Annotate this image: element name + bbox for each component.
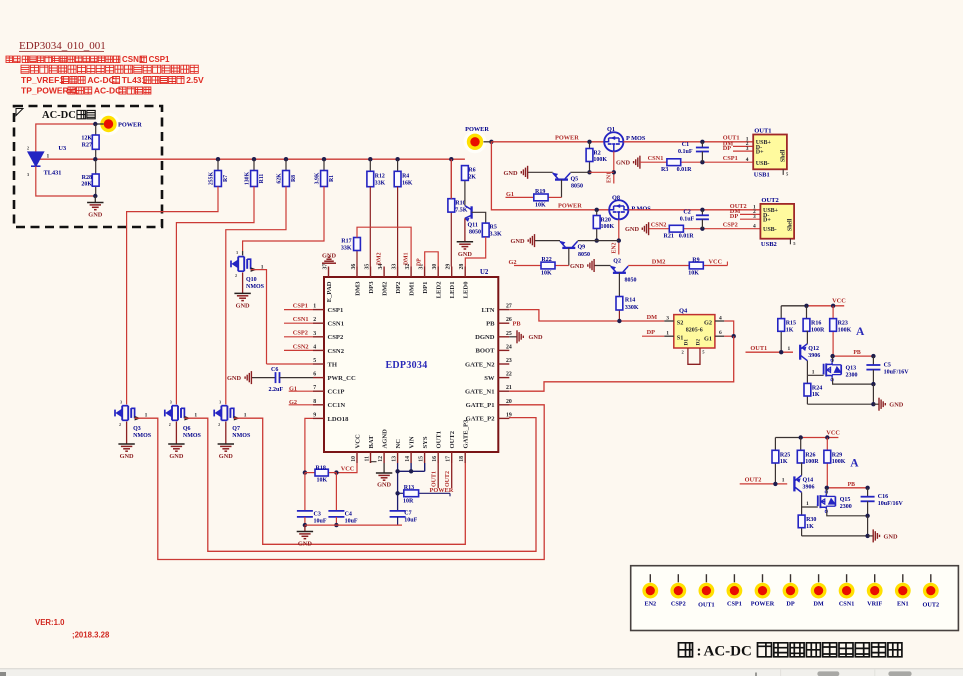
svg-text:18: 18	[459, 456, 465, 462]
svg-text:CSN1: CSN1	[648, 155, 664, 162]
wire gate to Q15	[802, 506, 818, 508]
svg-text:7: 7	[313, 385, 316, 391]
wire cap ground bus	[305, 524, 402, 526]
resistor R30 1K	[801, 507, 803, 515]
svg-text:1: 1	[47, 154, 50, 160]
svg-text:100K: 100K	[832, 459, 846, 465]
pin 24 BOOT	[498, 349, 509, 351]
wire R2 bottom to EN1	[587, 170, 591, 174]
svg-text:R2: R2	[593, 150, 600, 156]
test point POWER (front-end)	[97, 113, 120, 136]
svg-text:8050: 8050	[625, 277, 637, 283]
wire R8 to NMOS gate column x=225.8	[226, 187, 286, 405]
svg-text:5: 5	[313, 358, 316, 364]
svg-text:NMOS: NMOS	[232, 433, 251, 439]
wire Q6 pin1 down-right to GATE_P2 net	[184, 416, 190, 421]
capacitor C1 0.1uF	[700, 140, 704, 144]
wire Q8 drain to USB2	[628, 209, 760, 211]
capacitor C3 10uF	[304, 473, 306, 510]
pin 13 NC	[397, 452, 399, 463]
svg-text:DM1: DM1	[403, 252, 409, 265]
svg-text:GND: GND	[511, 238, 525, 245]
wire R1 to Q10 drain	[243, 187, 324, 252]
wire Q9 base to R22	[568, 248, 570, 266]
resistor R7 255K	[216, 157, 220, 161]
svg-text:GATE_N2: GATE_N2	[465, 361, 495, 368]
svg-text:VCC: VCC	[709, 258, 723, 265]
svg-text:E_PAD: E_PAD	[326, 281, 333, 302]
svg-text:A: A	[856, 326, 865, 338]
svg-text:2K: 2K	[468, 174, 476, 180]
svg-text:2.5V: 2.5V	[186, 75, 204, 85]
pin 6 PWR_CC	[313, 377, 324, 379]
svg-text:USB2: USB2	[761, 241, 777, 248]
svg-text:Q15: Q15	[840, 497, 851, 503]
svg-text:PB: PB	[848, 482, 856, 488]
resistor R22 10K	[514, 265, 541, 267]
svg-text:POWER: POWER	[558, 203, 582, 210]
svg-text:4: 4	[313, 344, 316, 350]
svg-text:C7: C7	[404, 511, 411, 517]
test point VRIF	[874, 574, 876, 582]
wire Q2 base to R14	[618, 273, 620, 297]
svg-text:11: 11	[365, 456, 371, 462]
svg-text:Q4: Q4	[679, 308, 688, 315]
svg-text:GND: GND	[298, 541, 312, 548]
svg-text:R20: R20	[601, 217, 611, 223]
wire LTN pin27 to Q4	[509, 310, 664, 321]
svg-text:3: 3	[753, 214, 756, 220]
svg-text:DM2: DM2	[652, 258, 666, 265]
capacitor C2 0.1uF	[700, 208, 704, 212]
svg-text:10K: 10K	[535, 203, 546, 209]
svg-text:Q12: Q12	[808, 346, 819, 352]
pin 11 BAT	[370, 452, 372, 463]
pin 34 DM2	[383, 267, 385, 278]
svg-text:GND: GND	[169, 453, 183, 460]
net label OUT2 pin17 stub	[451, 463, 453, 488]
capacitor C16 10uF/16V	[867, 488, 869, 497]
svg-text:VRIF: VRIF	[867, 601, 882, 608]
svg-text:10uF: 10uF	[314, 519, 327, 525]
svg-text:EN1: EN1	[607, 172, 613, 183]
svg-text:R6: R6	[468, 167, 475, 173]
svg-text:255K: 255K	[209, 171, 215, 185]
svg-text:P MOS: P MOS	[626, 135, 646, 142]
svg-text:Q13: Q13	[846, 366, 857, 372]
svg-text:3: 3	[746, 146, 749, 152]
svg-text:R13: R13	[404, 485, 414, 491]
svg-text:PB: PB	[486, 321, 495, 328]
svg-text:0.1uF: 0.1uF	[678, 149, 693, 155]
pin 17 OUT2	[451, 452, 453, 463]
pin 27 LTN	[498, 309, 509, 311]
wire R30 bottom to ground	[802, 535, 868, 537]
svg-text:Q1: Q1	[607, 126, 615, 133]
connector box AC-DC interface	[631, 566, 959, 631]
svg-text:CSP1: CSP1	[149, 55, 170, 64]
pin 3 CSP2	[313, 336, 324, 338]
wire Q3 source to ground	[126, 422, 128, 445]
svg-text:C5: C5	[884, 362, 891, 368]
wire Q10 source to ground	[242, 272, 244, 293]
svg-text:CSP1: CSP1	[293, 303, 308, 310]
svg-text:1: 1	[313, 304, 316, 310]
ground GND sideways at Q9 emitter	[535, 240, 561, 242]
wire TH from Q10	[267, 363, 314, 365]
ground GND above pin 37	[322, 262, 336, 264]
svg-text:9: 9	[313, 412, 316, 418]
svg-text:10K: 10K	[688, 271, 699, 277]
pin 2 CSN1	[313, 322, 324, 324]
wire R24 bottom to ground	[807, 403, 873, 405]
resistor R20 100K	[595, 208, 599, 212]
resistor R12 33K	[368, 157, 372, 161]
svg-text:GATE_N1: GATE_N1	[465, 389, 495, 396]
svg-text:100R: 100R	[811, 327, 825, 333]
svg-text:6: 6	[719, 330, 722, 336]
svg-text:100K: 100K	[593, 157, 607, 163]
resistor R13 10R to POWER	[395, 491, 399, 495]
svg-text:R23: R23	[838, 321, 848, 327]
svg-text:R3: R3	[661, 167, 668, 173]
svg-text:VCC: VCC	[354, 434, 361, 449]
svg-text:GND: GND	[219, 453, 233, 460]
svg-text:VCC: VCC	[341, 465, 355, 472]
wire Q3 pin1 down-right to GATE_P1 net	[135, 416, 141, 421]
TL431 U3	[28, 152, 44, 166]
resistor R19 10K	[506, 196, 534, 198]
svg-text:NMOS: NMOS	[246, 284, 265, 290]
wire Q15 drain to PB	[826, 488, 828, 494]
ground GND sideways at Q5 emitter	[528, 171, 553, 173]
svg-text:LTN: LTN	[482, 307, 495, 314]
wire TL431 anode loop	[36, 166, 96, 196]
transistor Q1 P MOS	[604, 132, 623, 151]
pin 16 OUT1	[437, 452, 439, 463]
svg-text:17: 17	[446, 456, 452, 462]
svg-text:OUT1: OUT1	[754, 128, 771, 135]
svg-text:3906: 3906	[803, 485, 815, 491]
svg-text:R19: R19	[535, 189, 545, 195]
resistor R24 1K	[806, 375, 808, 383]
svg-text:P MOS: P MOS	[631, 205, 651, 212]
resistor R23 100K	[832, 306, 834, 319]
test point DM	[818, 574, 820, 582]
wire POWER down to Q8 row	[491, 142, 609, 210]
svg-text:DM2: DM2	[377, 252, 383, 265]
net PB wire	[827, 487, 867, 489]
svg-text:R30: R30	[806, 517, 816, 523]
wire Q14 collector to R26	[800, 463, 803, 475]
svg-text:Q11: Q11	[468, 223, 478, 229]
test point POWER (main)	[464, 130, 487, 153]
svg-text:3: 3	[120, 400, 122, 404]
svg-text:1K: 1K	[780, 459, 788, 465]
transistor Q15 2300	[817, 495, 818, 505]
svg-text:12: 12	[378, 456, 384, 462]
svg-text:10K: 10K	[541, 271, 552, 277]
svg-text:19: 19	[506, 412, 512, 418]
svg-text:0.01R: 0.01R	[677, 167, 693, 173]
transistor Q6 NMOS	[165, 409, 172, 418]
svg-text:S1: S1	[677, 335, 684, 342]
svg-text:VER:1.0: VER:1.0	[35, 618, 65, 627]
wire OUT1 input	[746, 351, 794, 353]
resistor R27 12K	[95, 124, 97, 135]
capacitor C6 2.2uF on PWR_CC	[251, 377, 275, 379]
svg-text:OUT1: OUT1	[431, 471, 437, 487]
svg-text:1: 1	[244, 412, 247, 418]
pin 15 SYS	[424, 452, 426, 463]
ground GND (R25 block)	[872, 529, 874, 542]
pin 1 CSP1	[313, 309, 324, 311]
svg-text:2: 2	[169, 423, 171, 427]
svg-text:DP: DP	[417, 258, 423, 266]
svg-text:3.9K: 3.9K	[315, 172, 321, 184]
pin 22 SW	[498, 377, 509, 379]
test point CSP1	[733, 574, 735, 582]
transistor Q13 2300	[823, 364, 824, 374]
wire R5 to pin 28 LED0	[465, 237, 485, 267]
svg-text:EN1: EN1	[897, 601, 909, 608]
svg-text:Q6: Q6	[183, 426, 191, 432]
svg-text:3: 3	[27, 172, 29, 177]
svg-text:TL431: TL431	[44, 170, 62, 177]
svg-text:DGND: DGND	[475, 334, 495, 341]
svg-text:DP: DP	[730, 213, 739, 220]
svg-text:VCC: VCC	[832, 298, 846, 305]
connector USB2 OUT2	[760, 204, 794, 239]
ground GND below Q6	[168, 443, 184, 445]
svg-text:R9: R9	[692, 258, 699, 264]
test point CSN1	[846, 574, 848, 582]
net EN2: Q8 gate stub	[618, 219, 620, 254]
svg-text:1: 1	[194, 412, 197, 418]
svg-text:R18: R18	[316, 465, 326, 471]
svg-text::: :	[697, 644, 702, 660]
svg-text:R5: R5	[490, 224, 497, 230]
svg-text:CSN1: CSN1	[328, 321, 345, 328]
svg-text:AC-DC: AC-DC	[87, 75, 114, 85]
wire VCC pin10 to R18	[336, 463, 357, 473]
svg-text:OUT1: OUT1	[436, 431, 443, 449]
svg-text:7.5K: 7.5K	[455, 207, 468, 213]
svg-text:Shell: Shell	[788, 218, 794, 231]
wire R12 to pin 35 DP3	[369, 187, 371, 267]
svg-text:LED0: LED0	[463, 281, 470, 299]
test point OUT2	[930, 574, 932, 582]
ground GND sideways at C6	[250, 371, 252, 384]
svg-text:Q8: Q8	[612, 195, 620, 202]
svg-text:U2: U2	[480, 269, 489, 276]
svg-text:NC: NC	[395, 439, 402, 449]
svg-text:C16: C16	[878, 494, 888, 500]
svg-text:Q10: Q10	[246, 277, 257, 283]
svg-text:2: 2	[235, 274, 237, 278]
svg-text:3.3K: 3.3K	[490, 231, 503, 237]
resistor R10 7.5K on LED1 pull-up	[450, 159, 452, 199]
svg-text:8205-6: 8205-6	[686, 328, 703, 334]
svg-text:R8: R8	[291, 175, 297, 182]
svg-text:GATE_P3: GATE_P3	[463, 419, 470, 449]
svg-text:C6: C6	[271, 367, 278, 373]
junction POWER	[489, 140, 493, 144]
wire Q12 emitter node	[806, 361, 808, 376]
svg-text:10: 10	[351, 456, 357, 462]
svg-text:1K: 1K	[806, 524, 814, 530]
svg-text:C3: C3	[314, 512, 321, 518]
net EN1: Q1 gate stub	[613, 151, 615, 183]
wire Q5 collector to R2 bottom	[570, 171, 589, 173]
transistor Q7 NMOS	[215, 409, 222, 418]
svg-text:AC-DC: AC-DC	[94, 86, 121, 96]
transistor Q8 P MOS	[609, 200, 628, 219]
svg-text:NMOS: NMOS	[183, 433, 202, 439]
svg-text:GND: GND	[88, 212, 102, 219]
svg-text:Q7: Q7	[232, 426, 240, 432]
resistor R29 100K	[826, 438, 828, 451]
resistor R8 62K	[284, 157, 288, 161]
main rail from TL431	[39, 158, 465, 160]
connector USB1 OUT1	[753, 135, 787, 170]
svg-text:CSP2: CSP2	[671, 601, 686, 608]
svg-text:Q2: Q2	[613, 259, 621, 265]
svg-text:GND: GND	[120, 453, 134, 460]
test point EN2	[649, 574, 651, 582]
junction at R27 top	[93, 122, 97, 126]
resistor R21 0.01R	[649, 228, 670, 230]
wire Q7 source to ground	[225, 422, 227, 445]
svg-text:PWR_CC: PWR_CC	[328, 375, 356, 382]
svg-text:33: 33	[392, 264, 398, 270]
svg-text:DP2: DP2	[395, 281, 402, 294]
svg-text:R22: R22	[541, 257, 551, 263]
transistor Q2 8050	[613, 272, 626, 274]
svg-text:LED1: LED1	[449, 282, 456, 299]
svg-text:R11: R11	[259, 174, 265, 184]
pin 30 LED2	[437, 267, 439, 278]
wire VCC rail (R25 block)	[775, 437, 800, 439]
svg-text:28: 28	[459, 264, 465, 270]
svg-text:Q9: Q9	[578, 245, 586, 251]
svg-text:CC1P: CC1P	[328, 389, 345, 396]
svg-text:PB: PB	[853, 350, 861, 356]
ground GND below R28	[94, 196, 96, 203]
svg-text:POWER: POWER	[555, 135, 579, 142]
svg-text:2.2uF: 2.2uF	[269, 387, 284, 393]
svg-text:CSP1: CSP1	[727, 601, 742, 608]
svg-text:10K: 10K	[317, 478, 328, 484]
svg-text:3: 3	[170, 400, 172, 404]
svg-text:USB1: USB1	[754, 172, 770, 179]
transistor Q12 3906	[799, 345, 801, 360]
svg-text:8050: 8050	[578, 252, 590, 258]
svg-text:G2: G2	[509, 259, 517, 266]
svg-text:CSP1: CSP1	[723, 155, 738, 162]
resistor R2 100K	[587, 140, 591, 144]
wire Q12 collector to R16	[806, 331, 809, 343]
caption: AC-DC front-end and protocol board interface	[679, 643, 693, 657]
svg-text:3: 3	[666, 315, 669, 321]
svg-text:GND: GND	[570, 263, 584, 270]
pin 12 AGND	[383, 452, 385, 463]
svg-text:SW: SW	[484, 375, 495, 382]
svg-text:R25: R25	[780, 452, 790, 458]
svg-text:8050: 8050	[469, 230, 481, 236]
svg-text:GND: GND	[504, 170, 518, 177]
ground GND sideways at DGND pin 25	[509, 336, 517, 338]
svg-text:10uF/16V: 10uF/16V	[878, 501, 904, 507]
svg-text:4: 4	[753, 224, 756, 230]
wire OUT2 input	[740, 483, 788, 485]
svg-text:EDP3034: EDP3034	[385, 360, 427, 371]
ground GND below Q11	[457, 241, 473, 243]
resistor R6 2K	[464, 180, 466, 205]
svg-text:;2018.3.28: ;2018.3.28	[72, 631, 110, 640]
svg-text:27: 27	[506, 304, 512, 310]
svg-text:16: 16	[432, 456, 438, 462]
svg-text:20K: 20K	[81, 182, 92, 188]
svg-text:D1: D1	[684, 339, 690, 346]
svg-text:DP: DP	[786, 601, 794, 608]
pin 31 DP1	[424, 267, 426, 278]
wire Q2 collector to R9	[628, 265, 689, 267]
svg-text:VIN: VIN	[408, 436, 415, 448]
svg-text:OUT2: OUT2	[445, 471, 451, 487]
svg-text:OUT2: OUT2	[449, 430, 456, 448]
svg-text:100R: 100R	[805, 459, 819, 465]
resistor R4 16K	[395, 157, 399, 161]
svg-text:10R: 10R	[403, 499, 414, 505]
wire LDO18 to R18 node	[305, 418, 313, 472]
svg-text:30: 30	[432, 264, 438, 270]
svg-text:GND: GND	[889, 402, 903, 409]
IC U2 EDP3034 body	[324, 277, 498, 452]
svg-text:GND: GND	[458, 251, 472, 258]
svg-text:3: 3	[313, 331, 316, 337]
svg-text:CSN1: CSN1	[293, 316, 309, 323]
svg-text:OUT1: OUT1	[698, 602, 715, 609]
svg-text:GND: GND	[236, 303, 250, 310]
pin 29 LED1	[451, 267, 453, 278]
resistor R26 100R	[800, 438, 802, 451]
wire R11 to NMOS gate column x=176.4	[176, 187, 254, 405]
svg-text:10uF: 10uF	[345, 519, 358, 525]
capacitor C4 10uF	[335, 473, 337, 510]
svg-text:CSN1: CSN1	[839, 601, 854, 608]
svg-text:DP: DP	[723, 145, 732, 152]
svg-text:2: 2	[119, 423, 121, 427]
wire R20 bottom to EN2	[595, 238, 599, 242]
svg-text:Q5: Q5	[571, 176, 579, 182]
pin 8 CC1N	[313, 404, 324, 406]
svg-text:R17: R17	[341, 239, 351, 245]
svg-text:POWER: POWER	[118, 122, 142, 129]
wire TL431 cathode to POWER	[36, 124, 96, 152]
pin 7 CC1P	[313, 390, 324, 392]
ground GND below Q10	[234, 292, 250, 294]
svg-text:DM2: DM2	[381, 281, 388, 296]
svg-text:3: 3	[236, 251, 238, 255]
svg-text:1K: 1K	[786, 327, 794, 333]
note line 1	[6, 56, 13, 63]
svg-text:LDO18: LDO18	[328, 416, 350, 423]
svg-text:37: 37	[323, 264, 329, 270]
svg-text:USB-: USB-	[756, 161, 770, 167]
svg-text:22: 22	[506, 372, 512, 378]
svg-text:D+: D+	[756, 150, 764, 156]
